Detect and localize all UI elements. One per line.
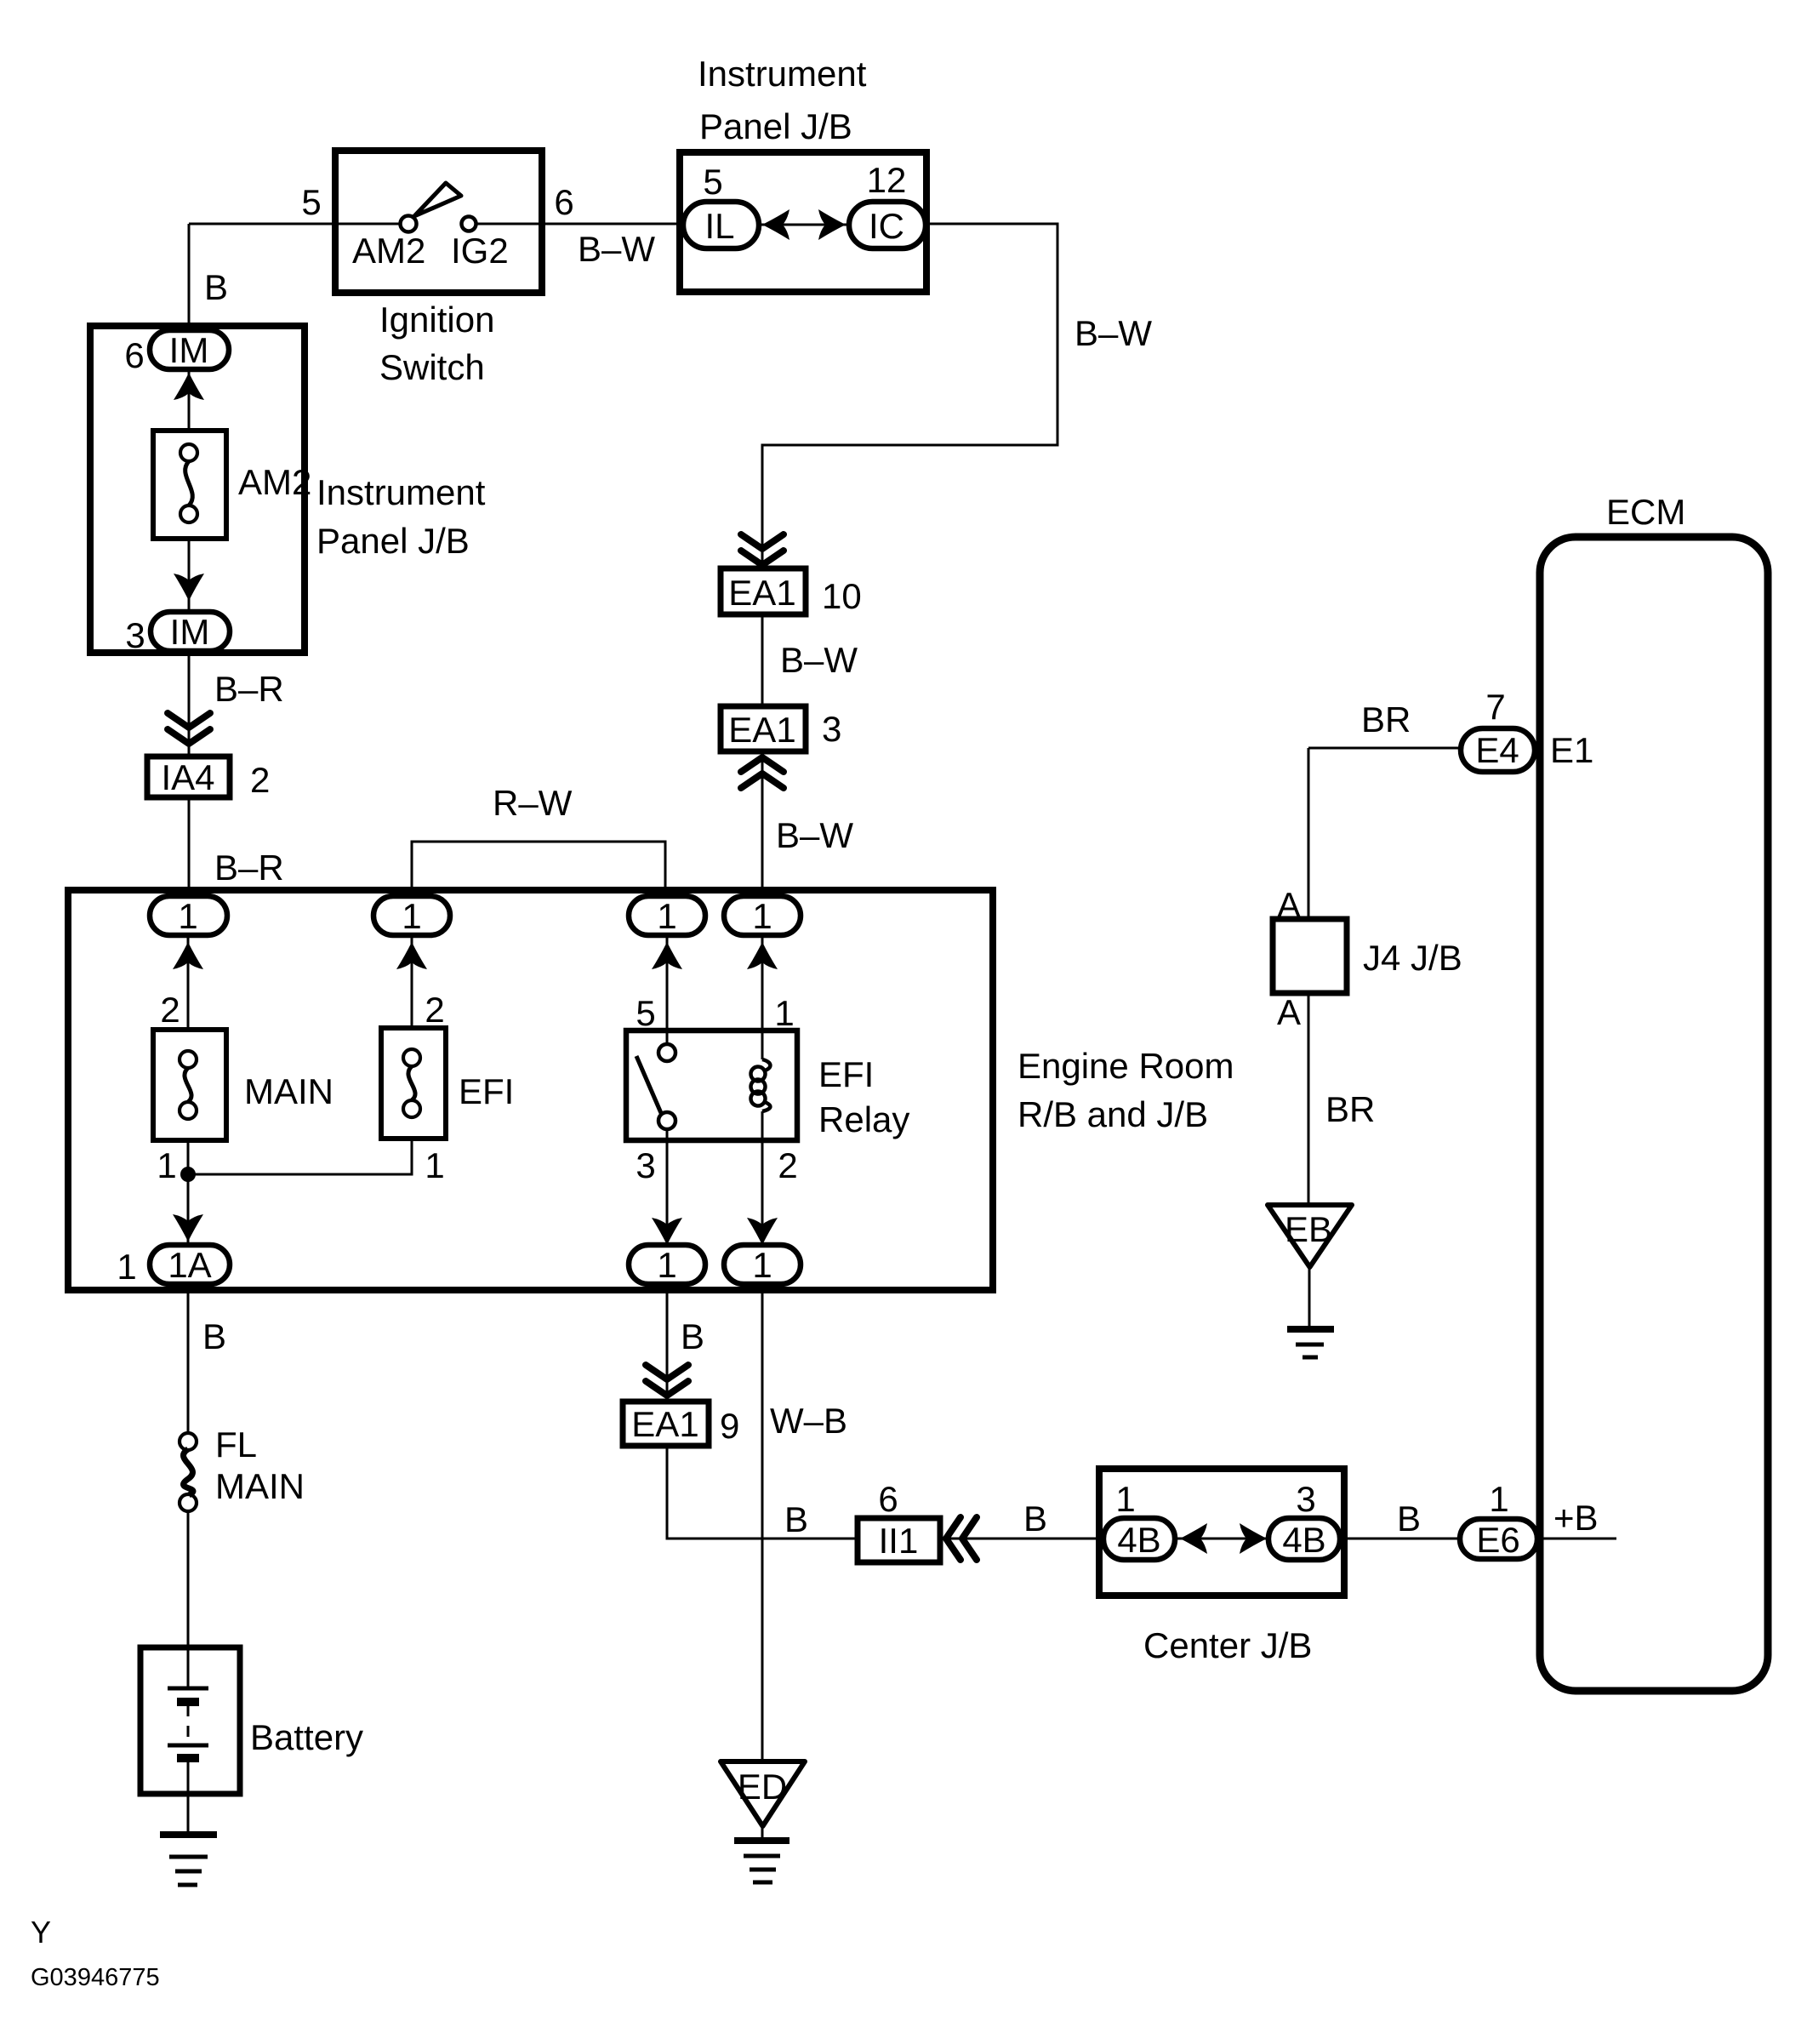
relay switch contact bottom [658,1112,675,1129]
svg-text:5: 5 [636,993,655,1033]
chevrons into IA4 [168,713,210,744]
wire: 4B to 4B inside Center J/B [1172,1538,1271,1540]
svg-text:E1: E1 [1550,730,1593,770]
wire: relay switch pin 3 to bottom connector 1 [666,1129,669,1247]
ground triangle EB [1268,1205,1352,1267]
svg-text:AM2: AM2 [352,231,425,271]
connector II1 [858,1518,940,1562]
wire: R-W jumper from EFI fuse column to EFI relay column [412,842,665,896]
svg-text:Center J/B: Center J/B [1143,1625,1312,1665]
wire: IM 3 to IA4 (B-R) [188,651,191,757]
connector E6 [1460,1519,1537,1559]
svg-text:Y: Y [31,1915,51,1950]
svg-text:AM2: AM2 [238,462,311,502]
svg-text:B–W: B–W [776,815,853,855]
wire: jumper MAIN fuse output to EFI fuse pin 1 [188,1139,412,1174]
svg-text:G03946775: G03946775 [31,1964,160,1991]
svg-text:6: 6 [124,335,144,375]
svg-text:3: 3 [1296,1479,1315,1519]
wire: IC pin 12 down-around to EA1 (B-W) [762,224,1057,568]
svg-text:9: 9 [720,1406,739,1446]
svg-text:Battery: Battery [250,1717,363,1757]
wire: ignition switch internal left (to AM2 contact) [335,223,401,226]
svg-text:BR: BR [1361,699,1411,739]
arrow down (relay coil output) [747,1218,778,1245]
wire: coil connector to ED ground (W-B) [761,1283,764,1764]
svg-text:IM: IM [169,330,209,370]
svg-text:II1: II1 [879,1521,919,1561]
svg-text:ECM: ECM [1606,492,1685,532]
svg-text:1: 1 [657,1245,676,1285]
connector 4B (right) [1268,1518,1340,1560]
connector 1A [150,1245,230,1284]
fusible link FL MAIN [180,1433,197,1511]
ignition switch lever [414,183,461,216]
connector IA4 [147,757,230,797]
wire: ignition pin 6 to Instrument Panel J/B (B-W) [544,223,682,226]
svg-text:1: 1 [425,1145,444,1185]
svg-text:1: 1 [657,896,676,936]
svg-text:IC: IC [869,206,904,246]
connector IC [849,202,926,248]
fuse EFI box [381,1028,446,1139]
svg-text:ED: ED [738,1767,787,1807]
svg-text:Relay: Relay [818,1099,909,1139]
ground (ED) [734,1841,789,1882]
svg-text:Ignition: Ignition [379,300,494,340]
svg-text:Engine Room: Engine Room [1018,1046,1234,1086]
arrow down above IM 3 [174,574,204,601]
wire: IM 6 to fuse AM2 [188,370,191,431]
svg-text:3: 3 [636,1145,655,1185]
ground triangle ED [721,1761,805,1826]
arrow down (MAIN output) [173,1214,203,1242]
fuse MAIN symbol [180,1051,197,1119]
ignition switch contact IG2 [462,217,476,231]
engine room R/B and J/B box [68,890,993,1290]
wire: EA1 9 down and right to II1 (B) [667,1447,858,1539]
wire: battery internal dashed [187,1705,190,1743]
connector 1 (MAIN column, top) [150,896,227,935]
ground (battery) [160,1835,217,1885]
junction block J4 J/B [1273,919,1347,993]
svg-text:R–W: R–W [493,783,573,823]
instrument panel J/B box (left) [90,326,305,653]
svg-text:IL: IL [704,206,734,246]
svg-text:B: B [784,1499,808,1539]
ECM box [1540,537,1768,1691]
svg-text:B: B [681,1316,704,1356]
center J/B box [1099,1469,1344,1596]
svg-text:1: 1 [752,1245,772,1285]
svg-text:1: 1 [157,1145,176,1185]
svg-text:B: B [1023,1499,1047,1539]
wire: connector 1 to relay switch pin 5 [666,934,669,1044]
wire: 1A connector to fusible link FL MAIN (B) [187,1283,190,1433]
svg-text:EFI: EFI [818,1054,874,1094]
ignition switch contact AM2 [401,216,417,232]
connector IM pin 3 [151,612,230,651]
arrow into 4B right [1240,1523,1267,1554]
svg-text:EB: EB [1285,1209,1332,1249]
connector 1 (relay coil, bottom) [724,1245,801,1284]
wire: ignition switch internal right (IG2 contact to pin 6) [476,223,544,226]
svg-text:1: 1 [117,1247,136,1287]
ignition switch box [335,151,542,293]
relay coil [751,1059,771,1111]
svg-text:2: 2 [778,1145,797,1185]
svg-text:1: 1 [178,896,197,936]
svg-text:IG2: IG2 [451,231,509,271]
wire: connector 1 to MAIN fuse pin 2 [187,934,190,1030]
wire: IL to IC inside Instrument Panel J/B [761,224,849,226]
svg-text:1: 1 [752,896,772,936]
svg-text:EA1: EA1 [728,710,795,750]
arrow up (relay coil column) [747,942,778,969]
svg-text:10: 10 [822,576,862,616]
svg-text:6: 6 [554,182,573,222]
arrow up (relay switch column) [652,942,682,969]
battery box [140,1647,240,1794]
fuse AM2 box [153,431,226,539]
arrow into IC [818,209,846,240]
wire: EB triangle to ground [1308,1266,1311,1328]
wire: E6 +B stub inside ECM [1536,1538,1616,1540]
svg-text:A: A [1277,992,1301,1032]
svg-text:2: 2 [250,760,270,800]
svg-text:B: B [1397,1499,1421,1539]
wire: connector 1 to EFI fuse pin 2 [411,934,413,1028]
wire: 4B pin 3 to ECM E6 (B) [1337,1538,1463,1540]
svg-text:4B: 4B [1282,1520,1325,1560]
connector 1 (relay switch, bottom) [629,1245,705,1284]
svg-text:+B: +B [1553,1498,1599,1538]
svg-text:EA1: EA1 [728,573,795,613]
svg-text:EA1: EA1 [631,1404,698,1444]
instrument panel J/B box (top) [680,152,926,292]
wire: EA1 10 to EA1 3 (B-W) [761,616,764,706]
svg-text:2: 2 [160,990,180,1030]
wire: ignition switch pin 5 to junction above IM [189,223,335,226]
wire: ED triangle to ground [761,1824,764,1841]
wire: down to IM connector 6 [188,224,191,328]
wire: relay coil pin 2 to bottom connector 1 [761,1111,764,1247]
svg-text:FL: FL [215,1425,257,1464]
fuse AM2 symbol [180,444,197,522]
fuse EFI symbol [403,1049,420,1117]
wire: II1 to Center J/B 4B (B) [940,1538,1106,1540]
connector 4B (left) [1103,1518,1175,1560]
svg-text:Switch: Switch [379,347,485,387]
arrow up (EFI column) [396,942,427,969]
svg-text:BR: BR [1325,1089,1375,1129]
relay switch contact top [658,1044,675,1061]
svg-text:3: 3 [822,709,841,749]
connector 1 (relay switch column, top) [629,896,705,935]
relay switch lever [636,1056,661,1113]
arrow up (MAIN column) [173,942,203,969]
svg-text:E6: E6 [1476,1520,1519,1560]
wire: relay output connector to EA1 9 (B) [666,1283,669,1402]
svg-text:MAIN: MAIN [244,1071,333,1111]
svg-text:B–R: B–R [214,669,284,709]
svg-text:12: 12 [867,160,907,200]
connector EA1 pin 3 [721,706,806,751]
svg-text:B: B [202,1316,226,1356]
relay EFI box [626,1031,797,1140]
svg-text:5: 5 [703,162,722,202]
connector IL [683,202,759,248]
connector EA1 pin 10 [721,568,806,614]
svg-text:1: 1 [1489,1479,1508,1519]
wire: battery to ground [187,1758,190,1835]
connector E4 [1461,728,1535,772]
connector IM pin 6 [150,330,229,369]
svg-text:5: 5 [301,182,321,222]
svg-text:3: 3 [125,615,145,655]
arrow up below IM 6 [174,373,204,400]
chevrons into EA1 10 [741,534,784,565]
wire: connector 1 to relay coil pin 1 [761,934,764,1059]
svg-text:Instrument: Instrument [316,472,486,512]
svg-text:EFI: EFI [459,1071,514,1111]
wire: FL MAIN to battery [187,1511,190,1688]
svg-text:R/B and J/B: R/B and J/B [1018,1094,1208,1134]
connector 1 (relay coil column, top) [724,896,801,935]
arrow into IL [762,209,789,240]
svg-text:B–W: B–W [780,640,858,680]
battery plates [168,1688,208,1758]
arrow into 4B left [1180,1523,1207,1554]
svg-text:6: 6 [878,1479,898,1519]
svg-text:IA4: IA4 [161,757,214,797]
fuse MAIN box [153,1030,226,1140]
svg-text:E4: E4 [1475,730,1519,770]
wire: EA1 3 down to engine room J/B connector (B-W) [761,752,764,896]
svg-text:Instrument: Instrument [698,54,867,94]
svg-text:Panel J/B: Panel J/B [699,106,852,146]
svg-text:1: 1 [402,896,421,936]
svg-text:Panel J/B: Panel J/B [316,521,470,561]
svg-text:B–W: B–W [578,229,655,269]
arrow down (relay switch output) [652,1218,682,1245]
svg-text:1: 1 [1115,1479,1135,1519]
svg-text:J4 J/B: J4 J/B [1363,938,1462,978]
svg-text:B: B [204,267,228,307]
chevrons left of II1 [946,1517,977,1560]
wire: fuse AM2 to IM 3 [188,539,191,614]
svg-text:MAIN: MAIN [215,1466,305,1506]
svg-text:IM: IM [170,612,210,652]
wire: J4 J/B to EB ground (BR) [1308,993,1310,1208]
wire: IA4 to engine room J/B (B-R) [188,797,191,896]
connector EA1 pin 9 [623,1402,709,1446]
svg-text:1A: 1A [168,1245,211,1285]
svg-text:4B: 4B [1117,1520,1160,1560]
svg-text:B–W: B–W [1075,313,1152,353]
connector 1 (EFI column, top) [373,896,450,935]
wire: MAIN fuse pin 1 down to 1A connector [187,1140,190,1247]
svg-text:7: 7 [1485,687,1505,727]
ground (EB) [1287,1329,1334,1357]
chevrons below EA1 3 [741,757,784,788]
svg-text:B–R: B–R [214,848,284,888]
svg-text:2: 2 [425,990,444,1030]
chevrons into EA1 9 [646,1365,688,1396]
wire: ECM E4 pin 7 to J4 J/B (BR) [1308,748,1463,919]
svg-text:W–B: W–B [770,1401,847,1441]
node: junction dot at MAIN fuse pin 1 [180,1167,196,1182]
svg-text:1: 1 [774,993,794,1033]
